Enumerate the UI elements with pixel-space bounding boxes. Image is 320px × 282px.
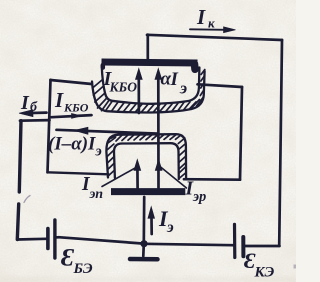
wire collector to top rail [146,35,149,61]
scan tick right edge [294,265,297,269]
arrow I_b (points left) [19,110,47,117]
label I_b [20,92,38,115]
svg-text:КБО: КБО [63,101,89,115]
arrow I_e on emitter lead (up) [148,207,155,235]
wire bottom rail right of junction [144,244,232,245]
arrow I_KBO inside collector (up) [135,68,142,113]
battery E_KE: tall thin plate (positive) [233,224,237,257]
emitter plate (thick bottom bar) [111,188,185,195]
wire base lead horizontal with right arrow (I_KBO flow) [20,113,92,120]
svg-text:I: I [196,5,206,29]
battery E_BE: short thick plate (negative) [46,229,50,249]
label (I-alpha)I_e [48,134,102,160]
label I_ep [81,174,103,202]
label E_KE [244,248,274,281]
svg-text:эр: эр [192,189,206,205]
label E_BE [61,245,93,278]
svg-text:(I–α)I: (I–α)I [48,134,96,155]
base box: top-left edge [51,80,92,84]
arrow alpha I_e long center line (up) [155,68,162,188]
wire right battery to right rail [245,245,280,248]
collector junction (bowl, hatched band) [92,66,205,113]
wire base internal with left arrow ((1-a)Ie flow) [57,127,159,134]
wire bottom-left to battery [17,237,46,240]
label I_er [185,179,207,206]
svg-text:э: э [95,144,102,160]
label I_KBO (inside collector) [103,68,138,95]
svg-text:КЭ: КЭ [254,265,275,281]
wire bottom rail left of junction [58,237,143,243]
ground bar [130,257,158,262]
ground stub [142,244,145,256]
arrow I_k (points right) [190,27,236,33]
label I_e [158,206,174,236]
svg-text:I: I [170,69,179,90]
collector plate [102,62,198,63]
bottom page smudge [0,277,296,282]
svg-text:эп: эп [89,187,104,202]
svg-text:I: I [54,88,64,112]
faint pen gap arc [24,196,30,203]
base box: top-right edge [198,84,243,87]
leader line I_ep [102,168,136,187]
wire bottom rail to battery E_KE [232,244,234,247]
wire right side down [279,40,282,246]
svg-text:э: э [166,219,174,236]
svg-text:э: э [179,79,187,98]
svg-text:к: к [208,16,215,31]
wire base terminal lower [17,204,18,240]
label alpha I_e (inside collector) [161,69,188,98]
wire base terminal left vertical [19,121,21,192]
svg-text:КБО: КБО [109,80,138,95]
base box: left edge [48,80,51,173]
base box: right edge [240,87,242,180]
wire emitter lead down [142,197,145,244]
base box: bottom-left edge [48,172,109,174]
label I_KBO (on base lead) [54,88,89,115]
emitter junction (dome, hatched band) [106,134,186,179]
junction node dot [140,240,147,247]
arrow I_ep inside dome (up) [134,159,141,188]
battery E_KE: short thick plate (negative) [241,237,245,256]
base box: bottom-right edge [184,178,240,181]
battery E_BE: tall thin plate (positive) [53,220,56,258]
svg-text:БЭ: БЭ [73,261,93,277]
wire battery E_BE to bottom rail [55,236,59,239]
leader line I_er [160,167,187,189]
label I_k [196,5,215,31]
wire top rail [147,35,282,40]
